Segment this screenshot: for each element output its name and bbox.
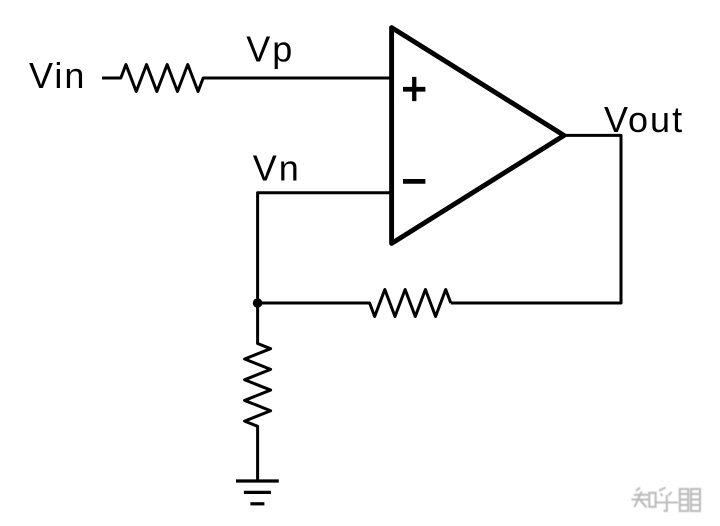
svg-text:Vp: Vp xyxy=(246,29,294,70)
svg-text:Vin: Vin xyxy=(29,55,86,96)
svg-text:Vout: Vout xyxy=(604,99,684,140)
svg-text:Vn: Vn xyxy=(253,148,301,189)
